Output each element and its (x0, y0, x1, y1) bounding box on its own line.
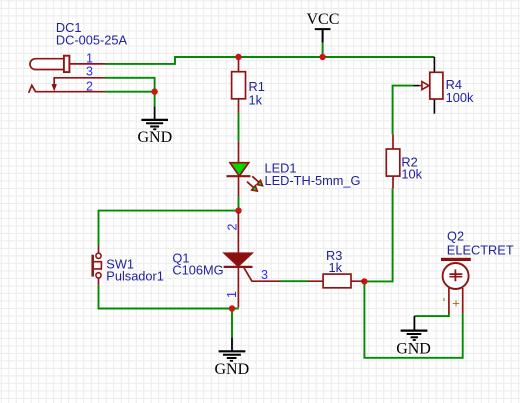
svg-text:+: + (452, 296, 460, 311)
svg-text:VCC: VCC (307, 11, 340, 28)
svg-text:ELECTRET: ELECTRET (447, 242, 514, 257)
svg-text:1: 1 (225, 291, 239, 298)
svg-text:C106MG: C106MG (172, 263, 223, 278)
wire: R1 bottom to LED1 anode (238, 113, 240, 141)
connector DC1 front plate (64, 56, 70, 72)
wire: DC1 pin3 down to pin2 junction (105, 78, 155, 92)
connector DC1 pin 1 lead (69, 63, 105, 65)
potentiometer R4 (414, 57, 443, 114)
svg-text:GND: GND (138, 129, 173, 146)
svg-text:100k: 100k (446, 90, 474, 105)
node A junction dot (LED cathode / SW loop) (235, 207, 241, 213)
wire: node B down to GND3 (231, 309, 233, 338)
svg-text:GND: GND (215, 361, 250, 378)
wire: LED1 cathode to node A (238, 196, 240, 210)
connector DC1 pin 3 lead with arrow (54, 78, 105, 86)
connector DC1 barrel body (30, 59, 64, 70)
switch SW1 (93, 246, 102, 286)
wire: DC1 pin2 to junction (105, 91, 155, 93)
svg-text:-: - (435, 297, 450, 301)
junction dot DC1 pins 2-3 (151, 88, 157, 94)
ground GND3 (bottom center) (215, 338, 250, 378)
svg-text:Pulsador1: Pulsador1 (106, 268, 164, 283)
resistor R3 (308, 274, 364, 288)
wire: VCC stem to top rail (322, 42, 324, 57)
LED1 light arrow upper (252, 176, 259, 182)
svg-text:10k: 10k (401, 166, 422, 181)
LED1 light arrow lower (247, 182, 254, 188)
ground GND1 (138, 107, 173, 146)
svg-text:1k: 1k (329, 260, 343, 275)
resistor R2 (386, 134, 400, 188)
svg-text:1k: 1k (249, 92, 263, 107)
svg-text:2: 2 (86, 79, 93, 93)
svg-text:3: 3 (261, 268, 268, 282)
power VCC symbol (307, 11, 340, 42)
ground GND2 (under Q2) (396, 316, 431, 357)
wire: node A left to SW1 top (99, 211, 239, 246)
svg-text:DC-005-25A: DC-005-25A (56, 33, 128, 48)
junction dot on top rail at R1 (235, 54, 241, 60)
svg-text:2: 2 (226, 224, 240, 231)
wire: node C right and up to R2 (364, 188, 392, 281)
wire: Q1 gate to R3 (280, 280, 308, 282)
junction dot on top rail at VCC (319, 54, 325, 60)
svg-text:GND: GND (396, 341, 431, 358)
node B junction dot (bottom left) (229, 305, 235, 311)
wire: Q2 minus pin to GND2 (414, 313, 449, 316)
wire: SW1 bottom to Q1 cathode node (99, 286, 239, 309)
LED LED1 (227, 141, 263, 196)
svg-text:Q2: Q2 (447, 228, 464, 243)
svg-text:LED-TH-5mm_G: LED-TH-5mm_G (265, 173, 361, 188)
wire: junction down to GND1 (154, 92, 156, 107)
thyristor Q1 (224, 212, 280, 308)
connector DC1 pin 2 lead with spring contact (29, 85, 105, 93)
wire: R2 top to R4 wiper (393, 86, 414, 135)
node C junction dot (R3 right) (361, 278, 367, 284)
svg-text:3: 3 (86, 64, 93, 78)
wire: DC1 pin1 to top rail and across to R4 (105, 57, 434, 64)
resistor R1 (232, 57, 246, 113)
wire: node C down along bottom to Q2 plus pin (364, 281, 462, 357)
microphone Q2 (441, 258, 471, 314)
